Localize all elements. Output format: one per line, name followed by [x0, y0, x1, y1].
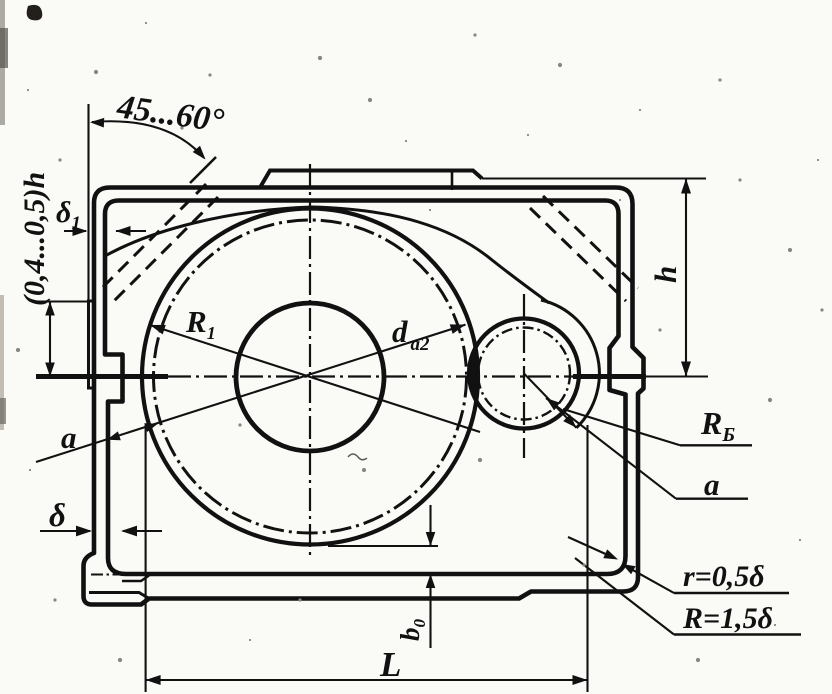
bearing boss arc R_B — [541, 300, 599, 428]
left flange boss edge (0.4-0.5)h — [89, 301, 96, 388]
gear wheel reference circle (dash-dot large) — [154, 220, 467, 533]
dimension line (0,4..0,5)h — [49, 302, 51, 377]
svg-text:R=1,5δ: R=1,5δ — [682, 602, 773, 635]
cover ceiling arc R1 — [105, 207, 549, 303]
squiggle artifact — [348, 454, 367, 460]
dimension line L — [146, 679, 588, 681]
housing cover and base outer outline — [84, 188, 644, 605]
left foot ledge line — [89, 593, 149, 599]
floor corner ledge left — [122, 576, 149, 582]
underline R_B — [680, 444, 752, 446]
leader R_B — [563, 409, 680, 445]
chamfer tick mark — [190, 157, 216, 183]
radius line R1 — [150, 325, 480, 432]
gap a arrows at wall — [107, 431, 121, 440]
inspection hatch cover on top — [260, 171, 482, 188]
extension line for chamfer angle — [87, 104, 89, 301]
scan smudge left edge top — [0, 0, 5, 125]
svg-text:δ: δ — [49, 498, 66, 534]
bearing boss radius arrow — [524, 374, 576, 428]
bearing bore circle (small solid) — [469, 319, 579, 429]
dimension delta base wall thickness — [40, 530, 90, 532]
split line left flange (solid) — [36, 374, 168, 379]
chamfer angle arc 45..60 — [92, 121, 204, 158]
gear wheel tip circle (solid large) — [142, 209, 478, 545]
tangent extension line at wheel bottom — [328, 545, 438, 547]
leader R=1.5delta — [575, 558, 674, 635]
extension line hatch top for h — [482, 177, 706, 179]
vertical centerline big wheel — [309, 164, 311, 560]
svg-text:h: h — [648, 266, 683, 283]
dimension line b0 upper — [429, 505, 431, 546]
svg-text:a: a — [61, 420, 77, 455]
extension line L right — [586, 425, 588, 692]
right chamfer dashed line 2 — [530, 208, 626, 301]
extension line L left — [145, 425, 147, 692]
scan smudge left edge middle — [0, 295, 4, 430]
extension line top of flange boss — [38, 300, 92, 302]
leader a right — [546, 398, 676, 499]
right chamfer dashed line 1 — [543, 196, 638, 288]
underline a right — [676, 498, 748, 500]
dimension line b0 lower — [429, 574, 431, 648]
housing inner wall outline — [105, 201, 626, 575]
overlap lens of wheel and bearing circles — [470, 348, 478, 399]
scan speckles — [145, 22, 147, 24]
svg-text:r=0,5δ: r=0,5δ — [683, 560, 765, 593]
corner fillet arrow — [568, 537, 610, 556]
leader r=0.5delta — [622, 564, 674, 593]
underline r=0.5delta — [674, 592, 789, 594]
bearing inner dash-dot circle — [478, 328, 570, 420]
underline R=1.5delta — [674, 633, 801, 635]
svg-text:a: a — [704, 467, 720, 502]
horizontal centerline — [168, 375, 573, 377]
dimension line h — [685, 179, 687, 377]
split line extension to h dimension — [646, 376, 708, 378]
hatch tick — [451, 171, 454, 191]
svg-text:L: L — [379, 645, 401, 684]
wheel hub circle — [236, 303, 384, 451]
left chamfer dashed line 1 — [103, 184, 206, 287]
center distance line a and radius d_a2 — [36, 325, 466, 462]
dimension delta1 wall thickness — [64, 230, 86, 232]
vertical centerline bearing — [523, 294, 525, 458]
split line right flange (solid) — [573, 374, 646, 379]
foot bolt centerline mark — [91, 574, 121, 576]
left chamfer dashed line 2 — [114, 197, 218, 301]
svg-text:(0,4...0,5)h: (0,4...0,5)h — [18, 172, 51, 306]
ink speck top-left corner — [27, 5, 43, 20]
